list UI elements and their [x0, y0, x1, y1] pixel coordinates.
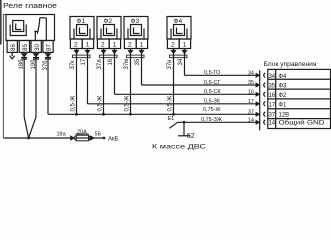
svg-text:1: 1 — [140, 42, 144, 49]
connector pin 30 — [33, 54, 39, 59]
svg-text:1: 1 — [86, 42, 90, 49]
ECU block U5 — [268, 69, 331, 128]
battery label АкБ — [108, 136, 119, 142]
svg-text:2: 2 — [171, 42, 175, 49]
svg-text:0,5-СГ: 0,5-СГ — [204, 80, 220, 86]
relay K1 coil — [10, 21, 26, 36]
svg-text:37: 37 — [248, 109, 254, 115]
svg-text:16: 16 — [108, 58, 114, 65]
wire row2 0,5-СГ to pin 35 — [142, 84, 257, 86]
wire label 37м — [124, 59, 130, 70]
connector X4 (Ф4) — [170, 51, 188, 58]
wire label 18б — [19, 59, 25, 70]
svg-text:5Б: 5Б — [95, 132, 102, 138]
ECU connector row6 — [256, 120, 265, 125]
wire 19б from pin 30 — [35, 52, 37, 117]
connector before fuse — [71, 136, 76, 140]
wire row3 0,5-СК to pin 16 — [115, 93, 257, 95]
wire label 0,5-Ж (Ф3 drop) — [124, 95, 130, 111]
ECU pin 14 Общий GND — [268, 120, 325, 127]
svg-text:37б: 37б — [43, 60, 49, 71]
wire 37м (Ф3 pin2 to bus) — [130, 49, 132, 115]
svg-text:Ф2: Ф2 — [279, 93, 288, 99]
fuse F1 20A — [76, 129, 89, 141]
wire label 35 — [135, 58, 141, 65]
ECU connector row2 — [256, 83, 265, 88]
wire label 37н — [167, 60, 173, 70]
svg-text:86: 86 — [10, 43, 17, 51]
wire 34 (Ф4 pin1 to ECU row) — [184, 49, 186, 76]
ground caption — [152, 143, 207, 150]
ECU pin 16 Ф2 — [268, 93, 287, 99]
svg-text:0,5-Ж: 0,5-Ж — [70, 95, 76, 111]
wire row1 0,5-ГО to pin 34 — [185, 74, 257, 76]
relay K1 contact — [34, 18, 46, 41]
svg-text:1: 1 — [113, 42, 117, 49]
wire label 18а — [57, 132, 67, 138]
wire label 0,5-СГ — [204, 80, 254, 86]
battery feed line — [3, 137, 70, 139]
svg-text:0,5-ЗК: 0,5-ЗК — [204, 99, 221, 105]
wire label 19б — [31, 59, 37, 70]
injector U1 (Ф1) — [70, 17, 94, 49]
wire 5Б to battery — [94, 137, 104, 139]
wire label 37б — [43, 60, 49, 71]
svg-text:34: 34 — [248, 70, 254, 76]
wire row5 12V bus 0,75-Ж to pin 37 — [48, 113, 256, 115]
svg-text:К массе ДВС: К массе ДВС — [152, 143, 207, 150]
wire label 34 — [178, 58, 184, 65]
ECU pin 34 Ф4 — [268, 74, 287, 80]
connector after fuse — [89, 136, 94, 140]
svg-text:37н: 37н — [167, 60, 173, 70]
wire 35 (Ф3 pin1 to ECU row) — [141, 49, 143, 86]
svg-text:Ф4: Ф4 — [279, 74, 288, 80]
svg-text:37к: 37к — [70, 60, 76, 70]
svg-text:АкБ: АкБ — [108, 136, 119, 142]
connector arrow pin 86 — [10, 52, 15, 58]
svg-text:14: 14 — [268, 121, 275, 127]
svg-text:0,5-СК: 0,5-СК — [204, 89, 221, 95]
svg-text:2: 2 — [128, 42, 132, 49]
wire label 0,5-Ж (Ф2 drop) — [97, 95, 103, 111]
wire label 0,5-ГО — [204, 70, 254, 76]
ECU connector row5 — [256, 112, 265, 117]
svg-text:35: 35 — [135, 58, 141, 65]
ECU pin 37 12В — [268, 113, 289, 119]
relay pin 30 — [31, 41, 41, 53]
connector pin 87 — [45, 54, 51, 59]
wire label 0,5-СК — [204, 89, 254, 95]
battery terminal node — [103, 137, 106, 140]
wire 37н (Ф4 pin2 to bus) — [173, 49, 175, 115]
svg-text:34: 34 — [178, 58, 184, 65]
svg-text:Блок управления: Блок управления — [264, 61, 317, 68]
svg-text:16: 16 — [248, 89, 254, 95]
wire label 17 — [81, 58, 87, 65]
page edge mark — [0, 0, 2, 45]
relay pin 87 — [43, 41, 53, 53]
svg-text:2: 2 — [101, 42, 105, 49]
svg-text:37л: 37л — [97, 59, 103, 70]
ECU connector row1 — [256, 73, 265, 78]
ECU block U5 title — [264, 61, 317, 68]
wire label 0,5-Ж (Ф1 drop) — [70, 95, 76, 111]
node Е1 on 12V bus — [168, 113, 175, 122]
svg-text:87: 87 — [46, 43, 53, 51]
svg-text:85: 85 — [22, 43, 29, 51]
svg-text:17: 17 — [81, 58, 87, 65]
svg-text:35: 35 — [248, 80, 254, 86]
wire row4 0,5-ЗК to pin 17 — [88, 103, 257, 105]
relay K1 body — [6, 15, 55, 41]
svg-text:18б: 18б — [19, 59, 25, 70]
svg-text:62: 62 — [187, 133, 195, 140]
wire label 0,5-ЗК — [204, 99, 254, 105]
svg-text:35: 35 — [268, 84, 275, 90]
wire label 0,75-ЗЖ — [201, 117, 254, 123]
svg-text:1: 1 — [183, 42, 187, 49]
svg-text:37м: 37м — [124, 59, 130, 70]
svg-text:0,75-ЗЖ: 0,75-ЗЖ — [201, 117, 222, 123]
wire 16 (Ф2 pin1 to ECU row) — [114, 49, 116, 95]
ECU connector face — [259, 70, 261, 130]
wire label 0,5-Ж (Ф4 drop) — [167, 95, 173, 111]
connector X2 (Ф2) — [100, 51, 118, 58]
ECU connector row4 — [256, 101, 265, 106]
svg-text:14: 14 — [248, 117, 254, 123]
wire 37б from pin 87 to 12V bus — [47, 52, 49, 114]
svg-text:Ф1: Ф1 — [279, 102, 288, 108]
svg-text:0,5-ГО: 0,5-ГО — [204, 70, 221, 76]
svg-text:0,75-Ж: 0,75-Ж — [203, 107, 221, 113]
svg-text:Е1: Е1 — [168, 116, 175, 122]
ECU pin 35 Ф3 — [268, 84, 287, 90]
injector U3 (Ф3) — [124, 17, 148, 49]
ground point 62 — [170, 121, 195, 140]
svg-text:12В: 12В — [279, 113, 290, 119]
ECU pin 17 Ф1 — [268, 102, 287, 108]
wire label 37л — [97, 59, 103, 70]
svg-text:34: 34 — [268, 74, 275, 80]
ECU connector row3 — [256, 92, 265, 97]
injector U2 (Ф2) — [97, 17, 121, 49]
connector X1 (Ф1) — [73, 51, 91, 58]
injector U4 (Ф4) — [167, 17, 191, 49]
wire label 37к — [70, 60, 76, 70]
wire V-junction to battery line — [24, 117, 36, 139]
svg-text:2: 2 — [74, 42, 78, 49]
relay pin 85 — [19, 41, 29, 53]
relay K1 title — [3, 3, 57, 10]
relay pin 86 — [7, 41, 17, 53]
svg-text:Реле главное: Реле главное — [3, 3, 57, 10]
svg-text:16: 16 — [268, 93, 275, 99]
wire row6 ground 0,75-ЗЖ to pin 14 — [178, 121, 257, 123]
wire 17 (Ф1 pin1 to ECU row) — [87, 49, 89, 104]
node Ф3 on 12V bus — [129, 113, 132, 116]
svg-text:Общий GND: Общий GND — [279, 120, 326, 127]
node Ф1 on 12V bus — [75, 113, 78, 116]
wire label 16 — [108, 58, 114, 65]
svg-text:19б: 19б — [31, 59, 37, 70]
svg-text:18а: 18а — [57, 132, 67, 138]
wire label 0,75-Ж — [203, 107, 254, 116]
svg-text:17: 17 — [248, 99, 254, 105]
svg-text:Ф3: Ф3 — [279, 84, 288, 90]
wire 18б from pin 85 — [23, 52, 25, 117]
svg-text:17: 17 — [268, 102, 275, 108]
connector pin 85 — [21, 54, 27, 59]
wire 37к (Ф1 pin2 to bus) — [76, 49, 78, 115]
svg-text:37: 37 — [268, 113, 275, 119]
wire 37л (Ф2 pin2 to bus) — [103, 49, 105, 115]
wire battery riser to relay — [3, 15, 6, 139]
svg-text:30: 30 — [34, 43, 41, 51]
connector X3 (Ф3) — [127, 51, 145, 58]
node Ф2 on 12V bus — [102, 113, 105, 116]
wire label 5Б — [95, 132, 102, 138]
